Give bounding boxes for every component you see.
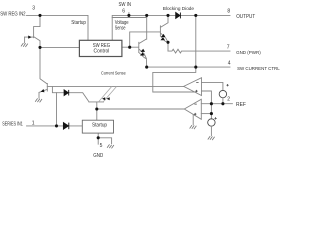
svg-text:GND (PWR): GND (PWR)	[236, 50, 261, 56]
svg-text:OUTPUT: OUTPUT	[236, 14, 255, 20]
svg-text:Blocking Diode: Blocking Diode	[163, 6, 195, 12]
svg-text:4: 4	[228, 61, 231, 67]
svg-text:5: 5	[100, 143, 103, 149]
svg-text:GND: GND	[93, 153, 103, 158]
svg-text:2: 2	[227, 97, 230, 103]
svg-text:Control: Control	[94, 48, 110, 54]
svg-text:3: 3	[32, 6, 35, 12]
svg-text:Current Sense: Current Sense	[101, 71, 126, 76]
svg-text:Sense: Sense	[115, 25, 126, 31]
svg-text:6: 6	[122, 8, 125, 14]
svg-text:Startup: Startup	[71, 20, 86, 26]
svg-text:SW REG IN2: SW REG IN2	[0, 12, 25, 18]
svg-text:1: 1	[32, 121, 35, 127]
svg-text:SERIES IN1: SERIES IN1	[2, 122, 23, 128]
svg-text:REF: REF	[236, 102, 246, 108]
svg-text:8: 8	[227, 8, 230, 14]
svg-text:7: 7	[227, 44, 230, 50]
svg-text:SW IN: SW IN	[119, 2, 132, 8]
svg-text:SW CURRENT CTRL: SW CURRENT CTRL	[237, 66, 280, 72]
svg-text:Startup: Startup	[92, 123, 107, 129]
